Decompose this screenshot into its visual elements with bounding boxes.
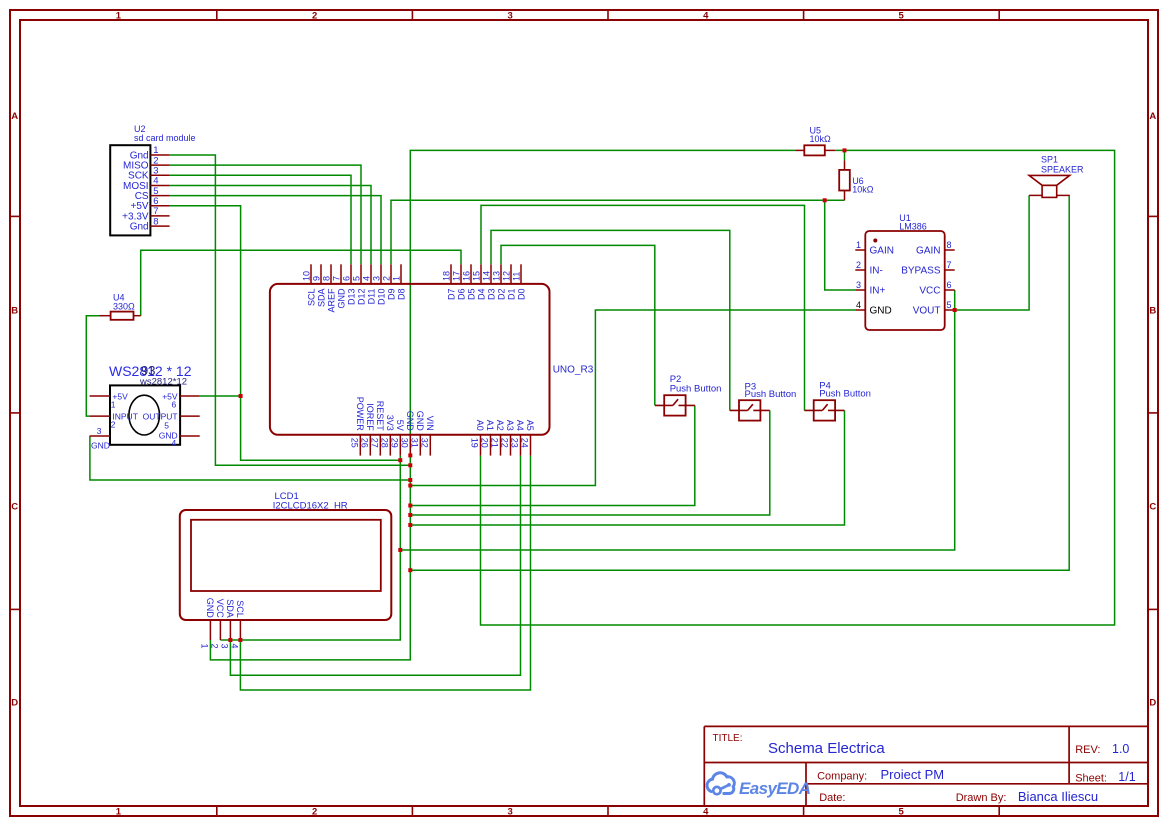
wire LM386 GND to GND rail	[410, 310, 855, 486]
svg-text:21: 21	[490, 438, 500, 448]
title block	[704, 726, 1148, 806]
push button P2	[655, 374, 722, 416]
LCD1 pin 4 SCL	[229, 600, 245, 648]
svg-text:4: 4	[171, 438, 176, 448]
UNO pin 2 D9	[382, 264, 397, 300]
push button P3	[730, 381, 797, 420]
LCD1 pin 3 SDA	[219, 599, 235, 648]
wire UNO D6 to U4 resistor	[141, 250, 461, 316]
svg-text:A0: A0	[475, 420, 485, 431]
svg-text:1: 1	[199, 644, 209, 649]
svg-text:IOREF: IOREF	[365, 403, 375, 431]
UNO pin 13 D2	[492, 264, 507, 300]
svg-text:11: 11	[512, 272, 522, 281]
UNO pin 29 5V	[390, 420, 405, 456]
resistor U5 10k	[795, 126, 835, 156]
svg-text:UNO_R3: UNO_R3	[553, 364, 594, 375]
svg-text:D3: D3	[487, 289, 497, 301]
svg-text:VOUT: VOUT	[913, 306, 941, 317]
UNO pin 19 A0	[470, 420, 485, 456]
svg-text:1: 1	[856, 240, 861, 250]
UNO pin 12 D1	[502, 264, 517, 300]
wire LCD SDA to UNO A4	[230, 456, 520, 676]
U2 pin 2 MISO	[123, 155, 170, 171]
svg-text:4: 4	[856, 300, 861, 310]
wire U6 top link	[844, 150, 846, 160]
WS2812 pin 5 OUTPUT	[143, 412, 200, 431]
svg-text:4: 4	[703, 806, 709, 817]
UNO pin 27 RESET	[370, 401, 385, 456]
svg-text:7: 7	[947, 260, 952, 270]
LM386 pin 4 GND	[855, 300, 891, 317]
frame column labels top	[116, 11, 905, 22]
LM386 pin 3 IN+	[855, 280, 885, 297]
LM386 pin 7 BYPASS	[901, 260, 954, 277]
svg-text:A: A	[1149, 111, 1156, 122]
UNO pin 20 A1	[480, 420, 495, 456]
svg-text:EasyEDA: EasyEDA	[739, 779, 811, 798]
wire U2 MOSI to UNO D11	[170, 186, 371, 265]
UNO pin 8 AREF	[322, 264, 337, 312]
svg-text:31: 31	[410, 438, 420, 448]
UNO pin 11 D0	[512, 264, 527, 300]
svg-text:C: C	[11, 502, 18, 513]
UNO pin 23 A4	[510, 420, 525, 456]
UNO pin 30 GND	[400, 411, 415, 456]
svg-text:SCL: SCL	[235, 600, 245, 618]
svg-text:RESET: RESET	[375, 401, 385, 432]
svg-text:3: 3	[372, 276, 382, 281]
svg-text:4: 4	[229, 644, 239, 649]
svg-text:VCC: VCC	[919, 286, 940, 297]
UNO pin 25 POWER	[350, 397, 365, 456]
wire U5 right to UNO A0	[481, 150, 1115, 625]
svg-text:2: 2	[312, 806, 317, 817]
svg-text:5: 5	[164, 420, 169, 430]
Arduino UNO_R3 module	[270, 284, 594, 435]
svg-text:6: 6	[947, 280, 952, 290]
UNO pin 15 D4	[472, 264, 487, 300]
svg-text:29: 29	[390, 438, 400, 448]
svg-text:1: 1	[116, 806, 122, 817]
svg-text:2: 2	[209, 644, 219, 649]
resistor U4 330ohm	[99, 293, 141, 320]
svg-text:sd card module: sd card module	[134, 133, 196, 143]
svg-text:GND: GND	[405, 411, 415, 432]
wire P3 to GND rail	[410, 410, 770, 515]
wire 5V rail UNO pin29 to LCD VCC	[220, 456, 400, 640]
svg-text:24: 24	[520, 438, 530, 448]
svg-text:22: 22	[500, 438, 510, 448]
svg-text:D1: D1	[507, 289, 517, 301]
svg-text:Drawn By:: Drawn By:	[956, 792, 1007, 804]
UNO pin 7 GND	[332, 264, 347, 308]
WS2812 pin 1 +5V	[90, 391, 128, 409]
svg-text:6: 6	[171, 399, 176, 409]
svg-text:D11: D11	[367, 289, 377, 305]
UNO pin 1 D8	[392, 264, 407, 300]
svg-text:D7: D7	[447, 289, 457, 301]
svg-text:2: 2	[312, 11, 317, 22]
svg-text:A1: A1	[485, 420, 495, 431]
svg-text:5V: 5V	[395, 420, 405, 431]
push button P4	[804, 381, 871, 421]
wire UNO D4 to P4	[481, 205, 805, 410]
wire speaker to GND rail	[410, 195, 1069, 570]
svg-text:GND: GND	[415, 411, 425, 432]
svg-text:1.0: 1.0	[1112, 742, 1129, 756]
U2 pin 4 MOSI	[123, 176, 170, 192]
wire UNO D9 to U6 bottom and LM386 IN+	[391, 200, 825, 264]
svg-text:Date:: Date:	[819, 792, 845, 804]
UNO pin 4 D11	[362, 264, 377, 304]
wire U6 bottom link	[825, 199, 845, 201]
svg-text:10kΩ: 10kΩ	[810, 134, 832, 144]
svg-text:8: 8	[947, 240, 952, 250]
svg-text:1/1: 1/1	[1118, 770, 1135, 784]
svg-text:10kΩ: 10kΩ	[852, 185, 874, 195]
svg-text:GND: GND	[91, 440, 110, 450]
UNO pin 6 D13	[342, 264, 357, 305]
svg-text:1: 1	[111, 399, 116, 409]
svg-text:OUTPUT: OUTPUT	[143, 412, 178, 422]
UNO pin 24 A5	[520, 420, 535, 456]
wire LM386 VOUT to speaker	[955, 195, 1029, 310]
UNO pin 16 D5	[462, 264, 477, 300]
svg-text:14: 14	[482, 271, 492, 281]
wire P4 to GND rail	[410, 410, 844, 525]
svg-text:Schema Electrica: Schema Electrica	[768, 740, 885, 757]
svg-text:D13: D13	[347, 289, 357, 306]
svg-text:26: 26	[360, 438, 370, 448]
LCD1 pin 2 VCC	[209, 599, 225, 649]
wire U2 Gnd pin1 to GND rail	[170, 155, 411, 465]
LCD1 pin 1 GND	[199, 598, 215, 649]
svg-text:3: 3	[508, 11, 513, 22]
wire P2 to GND rail	[410, 405, 695, 505]
svg-text:D6: D6	[457, 289, 467, 301]
svg-text:5: 5	[898, 11, 904, 22]
svg-text:19: 19	[470, 438, 480, 448]
svg-text:2: 2	[111, 419, 116, 429]
svg-text:1: 1	[116, 11, 122, 22]
UNO pin 9 SDA	[312, 264, 327, 307]
UNO pin 3 D10	[372, 264, 387, 305]
svg-text:VCC: VCC	[215, 599, 225, 619]
speaker SP1	[1029, 155, 1084, 198]
svg-text:330Ω: 330Ω	[113, 301, 135, 311]
svg-text:D2: D2	[497, 289, 507, 301]
svg-text:10: 10	[302, 271, 312, 281]
UNO pin 28 3V3	[380, 415, 395, 456]
svg-text:LM386: LM386	[899, 222, 927, 232]
frame row labels right	[1149, 111, 1156, 709]
svg-text:IN+: IN+	[870, 286, 886, 297]
svg-text:5: 5	[898, 806, 904, 817]
svg-text:Push Button: Push Button	[745, 389, 797, 400]
svg-text:23: 23	[510, 438, 520, 448]
svg-text:6: 6	[342, 276, 352, 281]
UNO pin 18 D7	[442, 264, 457, 300]
svg-text:5: 5	[352, 276, 362, 281]
svg-text:28: 28	[380, 438, 390, 448]
svg-text:VIN: VIN	[425, 416, 435, 431]
svg-text:GND: GND	[870, 306, 892, 317]
WS2812 pin 4 GND	[159, 430, 200, 448]
svg-text:A: A	[11, 111, 18, 122]
U2 pin 5 CS	[135, 186, 170, 202]
frame row labels left	[11, 111, 18, 709]
U2 pin 6 +5V	[131, 196, 170, 212]
svg-text:D5: D5	[467, 289, 477, 301]
wire 5V rail to LM386 VCC	[400, 290, 954, 550]
LM386 pin 1 GAIN	[855, 240, 894, 257]
svg-text:Sheet:: Sheet:	[1075, 773, 1107, 785]
svg-text:7: 7	[332, 276, 342, 281]
svg-text:GAIN: GAIN	[916, 246, 940, 257]
wire UNO D3 to P3	[491, 230, 730, 410]
svg-text:BYPASS: BYPASS	[901, 266, 941, 277]
LCD1 I2C LCD 16x2	[180, 491, 391, 620]
svg-text:4: 4	[362, 276, 372, 281]
UNO pin 14 D3	[482, 264, 497, 300]
svg-text:GND: GND	[337, 288, 347, 309]
svg-text:REV:: REV:	[1075, 744, 1100, 756]
svg-text:SDA: SDA	[317, 289, 327, 308]
svg-text:30: 30	[400, 438, 410, 448]
svg-text:5: 5	[947, 300, 952, 310]
U2 pin 8 Gnd	[130, 216, 170, 232]
svg-text:20: 20	[480, 438, 490, 448]
svg-text:27: 27	[370, 438, 380, 448]
svg-text:D0: D0	[517, 289, 527, 301]
wire WS2812 +5V pin6 stub link	[200, 395, 241, 397]
svg-text:GND: GND	[205, 598, 215, 619]
svg-text:D12: D12	[357, 289, 367, 306]
UNO pin 26 IOREF	[360, 403, 375, 455]
EasyEDA logo	[707, 773, 811, 798]
UNO pin 32 VIN	[420, 416, 435, 456]
U2 pin 1 Gnd	[130, 145, 170, 161]
wire U2 CS to UNO D10	[170, 196, 381, 265]
svg-text:Push Button: Push Button	[670, 383, 722, 394]
op-amp U1 LM386	[865, 213, 944, 330]
UNO pin 10 SCL	[302, 264, 317, 306]
WS2812 pin 6 +5V	[162, 391, 199, 409]
svg-text:TITLE:: TITLE:	[713, 733, 743, 744]
LM386 pin 6 VCC	[919, 280, 954, 297]
svg-text:18: 18	[442, 271, 452, 281]
svg-text:A4: A4	[515, 420, 525, 431]
svg-text:3: 3	[508, 806, 513, 817]
U2 pin 3 SCK	[128, 166, 170, 182]
svg-text:B: B	[1149, 306, 1156, 317]
svg-text:D9: D9	[387, 289, 397, 301]
svg-text:GAIN: GAIN	[870, 246, 894, 257]
svg-text:AREF: AREF	[327, 288, 337, 313]
svg-text:3: 3	[219, 644, 229, 649]
wire WS2812 pin3 GND to GND rail	[90, 436, 410, 480]
WS2812 pin 3 GND	[90, 426, 110, 450]
svg-text:25: 25	[350, 438, 360, 448]
svg-text:3: 3	[97, 426, 102, 436]
svg-text:16: 16	[462, 271, 472, 281]
svg-text:3: 3	[856, 280, 861, 290]
wire GND rail U5 left through UNO to LCD GND	[210, 150, 795, 660]
svg-text:Push Button: Push Button	[819, 389, 871, 400]
svg-text:D8: D8	[397, 289, 407, 301]
svg-text:A2: A2	[495, 420, 505, 431]
wire U2 MISO to UNO D12	[170, 165, 361, 264]
svg-text:D: D	[1149, 698, 1156, 709]
sd card module U2	[110, 124, 195, 236]
svg-text:12: 12	[502, 271, 512, 281]
resistor U6 10k	[839, 160, 874, 200]
svg-text:SDA: SDA	[225, 599, 235, 618]
svg-text:Proiect PM: Proiect PM	[881, 767, 945, 782]
svg-text:1: 1	[392, 276, 402, 281]
frame column labels bottom	[116, 806, 905, 817]
svg-text:2: 2	[382, 276, 392, 281]
svg-text:Company:: Company:	[817, 771, 867, 783]
svg-text:8: 8	[153, 216, 158, 227]
wire U4 to WS2812 INPUT	[86, 316, 99, 416]
svg-text:D4: D4	[477, 289, 487, 301]
WS2812 LED module U3	[109, 363, 192, 445]
svg-text:Gnd: Gnd	[130, 222, 149, 233]
svg-text:C: C	[1149, 502, 1156, 513]
svg-text:A5: A5	[525, 420, 535, 431]
svg-text:SP1: SP1	[1041, 155, 1058, 165]
svg-text:8: 8	[322, 276, 332, 281]
svg-text:17: 17	[452, 271, 462, 281]
svg-text:SCL: SCL	[307, 289, 317, 307]
LM386 pin 8 GAIN	[916, 240, 955, 257]
svg-text:3V3: 3V3	[385, 415, 395, 431]
wire LCD SCL to UNO A5	[240, 456, 530, 690]
svg-text:9: 9	[312, 276, 322, 281]
svg-text:B: B	[11, 306, 18, 317]
svg-text:POWER: POWER	[355, 397, 365, 432]
svg-text:4: 4	[703, 11, 709, 22]
UNO pin 5 D12	[352, 264, 367, 305]
WS2812 pin 2 INPUT	[90, 412, 138, 430]
svg-text:IN-: IN-	[870, 266, 883, 277]
svg-text:32: 32	[420, 438, 430, 448]
UNO pin 31 GND	[410, 411, 425, 456]
svg-text:A3: A3	[505, 420, 515, 431]
wire U2 SCK to UNO D13	[170, 175, 351, 264]
UNO pin 17 D6	[452, 264, 467, 300]
svg-text:D10: D10	[377, 289, 387, 306]
U2 pin 7 +3.3V	[122, 206, 169, 222]
svg-text:13: 13	[492, 271, 502, 281]
svg-text:D: D	[11, 698, 18, 709]
svg-text:INPUT: INPUT	[112, 412, 137, 422]
svg-text:Bianca Iliescu: Bianca Iliescu	[1018, 789, 1098, 804]
UNO pin 22 A3	[500, 420, 515, 456]
LM386 pin 2 IN-	[855, 260, 883, 277]
svg-text:SPEAKER: SPEAKER	[1041, 165, 1084, 175]
svg-text:2: 2	[856, 260, 861, 270]
svg-text:15: 15	[472, 271, 482, 281]
LM386 pin 5 VOUT	[913, 300, 955, 317]
wire U2 +5V to 5V rail	[170, 206, 401, 460]
UNO pin 21 A2	[490, 420, 505, 456]
wire UNO D2 to P2	[501, 245, 655, 405]
